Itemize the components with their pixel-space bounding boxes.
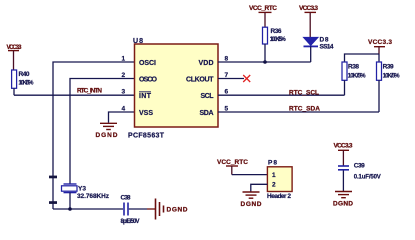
resistor R36 100K/5% bbox=[263, 27, 287, 62]
svg-text:RTC_INTN: RTC_INTN bbox=[77, 88, 102, 95]
svg-text:VCC3.3: VCC3.3 bbox=[334, 143, 353, 150]
wire VCC_RTC to P8 pin 1 bbox=[232, 174, 268, 176]
svg-text:C38: C38 bbox=[121, 195, 131, 202]
power VCC3.3 right bbox=[368, 39, 392, 54]
ground DGND at P8 bbox=[241, 192, 262, 208]
IC U8 body bbox=[135, 44, 219, 127]
svg-text:4: 4 bbox=[122, 106, 126, 113]
wire P8 pin 2 to ground bbox=[251, 184, 268, 191]
wire pin 1 OSCI to left vertical bbox=[53, 62, 135, 209]
svg-text:VCC3.3: VCC3.3 bbox=[368, 39, 392, 46]
svg-text:VSS: VSS bbox=[139, 110, 153, 117]
junction mark B on OSCI vertical bbox=[49, 201, 57, 204]
resistor R40 bbox=[12, 70, 35, 95]
svg-text:DGND: DGND bbox=[333, 201, 353, 208]
svg-text:R38: R38 bbox=[348, 63, 359, 70]
junction R36/VDD bbox=[263, 60, 267, 64]
ground DGND at pin 4 bbox=[96, 123, 118, 139]
svg-text:10K/5%: 10K/5% bbox=[383, 74, 401, 80]
wire VDD net pin 8 bbox=[218, 61, 311, 63]
svg-text:VDD: VDD bbox=[199, 60, 214, 67]
svg-text:1: 1 bbox=[122, 56, 126, 63]
ground DGND right of C38 (sideways) bbox=[147, 199, 188, 220]
svg-text:R40: R40 bbox=[19, 71, 30, 78]
power VCC3.3 top-left bbox=[7, 45, 23, 70]
svg-text:DGND: DGND bbox=[96, 132, 118, 139]
svg-text:Y3: Y3 bbox=[78, 185, 86, 192]
no-connect pin 7 stub and X bbox=[218, 75, 250, 82]
svg-text:U8: U8 bbox=[133, 38, 143, 45]
svg-text:CLKOUT: CLKOUT bbox=[186, 77, 214, 84]
svg-text:SDA: SDA bbox=[200, 110, 214, 117]
svg-text:32.768KHz: 32.768KHz bbox=[77, 193, 110, 200]
wire RTC_SDA pin 5 bbox=[218, 111, 379, 113]
power VCC_RTC bottom bbox=[217, 159, 248, 175]
svg-text:R36: R36 bbox=[271, 28, 282, 35]
resistor R38 10K/5% bbox=[342, 62, 366, 95]
svg-text:D8: D8 bbox=[320, 37, 329, 44]
svg-text:R39: R39 bbox=[383, 63, 394, 70]
svg-text:P8: P8 bbox=[268, 160, 277, 167]
connector P8 Header 2 bbox=[267, 160, 292, 201]
svg-text:OSCO: OSCO bbox=[139, 77, 158, 84]
svg-text:8p/E/50V: 8p/E/50V bbox=[121, 219, 140, 225]
ground DGND at C39 bbox=[333, 192, 353, 208]
svg-text:RTC_SCL: RTC_SCL bbox=[289, 89, 319, 96]
svg-text:Header 2: Header 2 bbox=[267, 193, 291, 200]
wire RTC_SCL pin 6 bbox=[218, 94, 345, 96]
capacitor C38 8p/E/50V bbox=[121, 195, 148, 226]
svg-text:DGND: DGND bbox=[167, 207, 188, 214]
svg-text:0.1uF/50V: 0.1uF/50V bbox=[354, 174, 381, 180]
svg-text:VCC3.3: VCC3.3 bbox=[299, 5, 318, 12]
resistor R39 10K/5% bbox=[377, 62, 401, 112]
svg-text:DGND: DGND bbox=[241, 201, 262, 208]
junction crystal/bottom wire bbox=[68, 207, 72, 211]
svg-text:OSCI: OSCI bbox=[139, 60, 156, 67]
svg-text:10K/5%: 10K/5% bbox=[19, 80, 35, 86]
power VCC3.3 above D8 bbox=[299, 5, 318, 37]
svg-text:RTC_SDA: RTC_SDA bbox=[289, 106, 320, 113]
svg-text:C39: C39 bbox=[354, 163, 365, 170]
svg-text:SCL: SCL bbox=[201, 93, 215, 100]
wire pin 4 VSS to ground bbox=[109, 112, 135, 123]
diode D8 SS14 bbox=[304, 37, 334, 63]
svg-text:SS14: SS14 bbox=[320, 44, 334, 51]
power VCC_RTC top bbox=[249, 5, 277, 27]
wire net RTC_INTN from R40 to pin 3 bbox=[14, 94, 135, 96]
svg-text:1: 1 bbox=[272, 172, 276, 179]
crystal Y3 32.768KHz bbox=[62, 184, 110, 209]
svg-text:VCC_RTC: VCC_RTC bbox=[249, 5, 277, 12]
junction mark A on OSCI vertical bbox=[49, 176, 57, 179]
wire bottom OSCI net to C38 bbox=[53, 208, 123, 210]
capacitor C39 0.1uF/50V bbox=[338, 163, 381, 192]
wire pull-up branch bbox=[345, 54, 380, 62]
svg-text:10K/5%: 10K/5% bbox=[348, 74, 367, 80]
svg-text:3: 3 bbox=[122, 89, 126, 96]
svg-text:PCF8563T: PCF8563T bbox=[128, 133, 165, 140]
svg-text:2: 2 bbox=[272, 182, 276, 189]
power VCC3.3 bottom right bbox=[334, 143, 353, 166]
svg-text:INT: INT bbox=[139, 93, 152, 100]
svg-text:100K/5%: 100K/5% bbox=[270, 37, 287, 43]
svg-text:VCC_RTC: VCC_RTC bbox=[217, 159, 248, 166]
wire pin 2 OSCO to crystal bbox=[70, 79, 135, 184]
svg-text:2: 2 bbox=[122, 72, 126, 79]
